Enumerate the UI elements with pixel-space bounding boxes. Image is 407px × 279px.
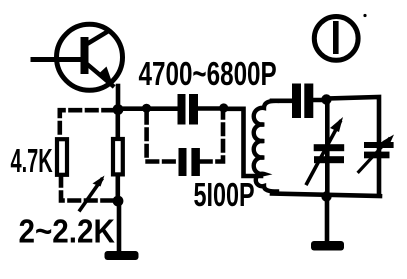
variable capacitor VC1 stem bbox=[325, 100, 330, 196]
wire node A down to resistor R2 bbox=[116, 109, 121, 138]
svg-text:4700~6800P: 4700~6800P bbox=[139, 56, 277, 93]
wire R2 down to node D bbox=[116, 175, 121, 201]
capacitor C3 bbox=[292, 84, 313, 119]
ground left bbox=[105, 251, 139, 260]
adjustment arrow on R2 bbox=[80, 176, 105, 211]
wire node C right then down to coil tap bbox=[224, 109, 261, 176]
node B bbox=[142, 104, 151, 113]
node E bbox=[321, 94, 331, 104]
ground right bbox=[311, 241, 344, 251]
wire node F down to ground bbox=[325, 197, 330, 243]
inductor L1 bbox=[254, 101, 277, 192]
wire C1 to node C bbox=[198, 106, 224, 111]
wire C3 to node E bbox=[313, 98, 327, 103]
node F bbox=[321, 191, 331, 201]
capacitor C2 bbox=[179, 148, 200, 176]
wire emitter lead down to node A bbox=[116, 86, 121, 109]
wire node E right and down right branch bbox=[326, 97, 379, 195]
speck dot bbox=[363, 14, 366, 17]
variable capacitor VC1 arrow bbox=[307, 117, 343, 184]
node C bbox=[219, 103, 228, 112]
wire dashed branch node B down to C2 bbox=[147, 113, 175, 162]
node A bbox=[113, 104, 124, 115]
transistor Q1 bbox=[33, 24, 123, 90]
circled figure number 1 bbox=[314, 17, 358, 61]
variable capacitor VC2 plates bbox=[364, 142, 394, 158]
wire node A to node B bbox=[118, 106, 147, 111]
variable capacitor VC1 plates bbox=[314, 144, 345, 163]
resistor R2 bbox=[113, 139, 123, 174]
svg-text:5I00P: 5I00P bbox=[194, 177, 255, 214]
wire dashed R1 down and right to node D bbox=[61, 176, 113, 201]
svg-text:4.7K: 4.7K bbox=[11, 142, 53, 180]
wire coil bottom along tank bottom bbox=[272, 194, 380, 197]
node D bbox=[113, 196, 124, 207]
resistor R1 bbox=[57, 139, 67, 175]
wire dashed branch C2 up to node C bbox=[201, 113, 223, 162]
variable capacitor VC2 arrow bbox=[359, 135, 394, 172]
svg-text:2~2.2K: 2~2.2K bbox=[18, 212, 115, 250]
wire dashed node A left and down to resistor R1 bbox=[60, 110, 113, 137]
capacitor C1 bbox=[178, 94, 199, 125]
wire node D down to ground bbox=[117, 201, 122, 252]
wire node B to capacitor C1 bbox=[147, 106, 178, 111]
wire coil top to capacitor C3 bbox=[272, 99, 292, 104]
